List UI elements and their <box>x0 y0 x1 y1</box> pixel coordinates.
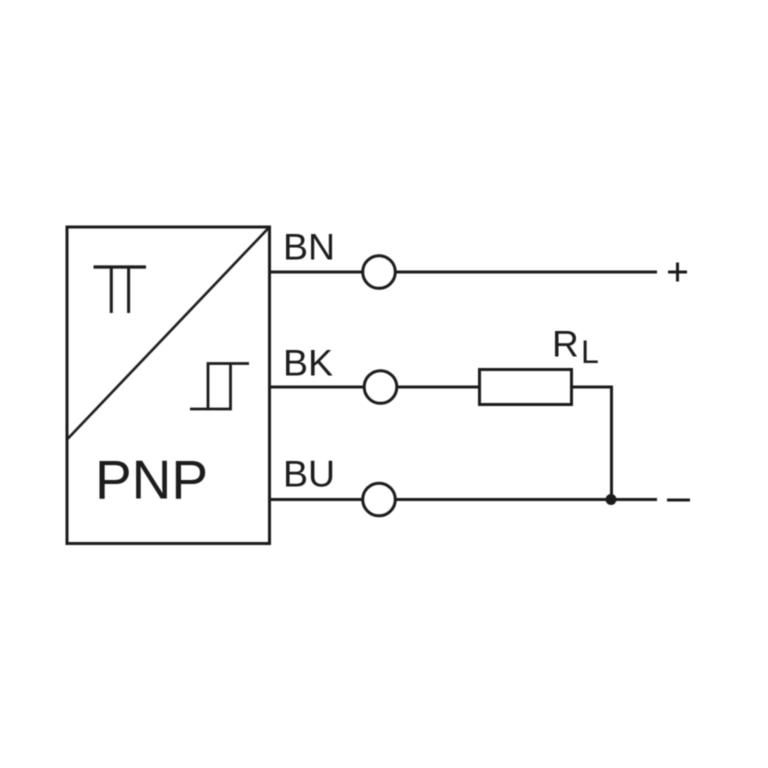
svg-text:BK: BK <box>283 342 333 384</box>
svg-text:R: R <box>552 323 579 364</box>
svg-text:L: L <box>581 334 599 370</box>
svg-text:BN: BN <box>283 226 335 268</box>
svg-text:BU: BU <box>283 453 335 495</box>
svg-text:PNP: PNP <box>95 449 208 511</box>
